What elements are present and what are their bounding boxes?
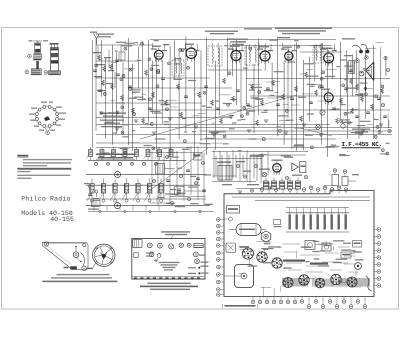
electrolytic band 3 <box>51 60 58 63</box>
speaker cone <box>366 62 374 81</box>
switch shaft hub 2 <box>115 203 121 209</box>
power drop wires <box>215 156 217 176</box>
power transformer box <box>218 166 232 181</box>
speaker caption line 3 <box>42 281 117 283</box>
balloon callout 19 <box>28 54 32 58</box>
IF transformer T3 <box>313 47 323 63</box>
tube label V5 <box>283 47 292 48</box>
dial mounting plate <box>42 242 88 270</box>
vibrator stem <box>36 61 39 69</box>
tube socket rear 5 <box>149 252 154 257</box>
PM speaker box <box>300 162 306 173</box>
rear caption below 2 <box>140 286 198 288</box>
ground arrow <box>365 77 367 89</box>
output transformer underside <box>226 243 236 253</box>
vibrator unit outline <box>35 43 41 52</box>
socket upper 3 <box>272 258 282 268</box>
speaker cone inner <box>368 66 372 77</box>
switch shaft line <box>86 173 206 175</box>
rear view caption <box>161 231 190 232</box>
balloon callout 20 <box>25 70 29 74</box>
svg-text:I.F.=455 KC.: I.F.=455 KC. <box>342 141 383 148</box>
rear caption below 3 <box>150 289 190 290</box>
dial lamp bracket <box>70 266 77 269</box>
resistor strip <box>283 260 305 262</box>
dial scale marks <box>146 253 153 254</box>
underside caption <box>225 305 256 307</box>
voice coil <box>359 71 364 76</box>
resistors <box>103 66 106 72</box>
cord anchor <box>80 261 82 263</box>
caption pointer <box>171 236 173 239</box>
top note E <box>244 28 272 29</box>
notes line 4 <box>17 168 71 170</box>
balloon callout 21 <box>44 71 48 75</box>
coil bank balloons <box>95 162 98 165</box>
left balloon column <box>217 218 221 222</box>
trimmer box 1 <box>156 164 165 175</box>
volume control pot <box>320 110 325 115</box>
compensator label <box>88 209 99 210</box>
dial pulley <box>73 252 79 258</box>
rear chassis box <box>132 239 205 280</box>
ground symbols <box>99 111 103 113</box>
coil bank top bus <box>88 159 186 161</box>
knob dot 2 <box>198 272 200 274</box>
vibrator lower contact <box>35 49 40 52</box>
osc section caps <box>166 179 170 181</box>
plate hole top-right <box>83 243 86 246</box>
top balloon row <box>260 188 264 192</box>
output network strip <box>346 50 348 93</box>
pilot lamp <box>262 172 267 177</box>
vibrator base bar <box>33 59 41 60</box>
notes line 1 <box>23 159 72 160</box>
filter can row <box>263 181 268 189</box>
tube V1 LA4 mixer <box>154 50 163 59</box>
wave trap star <box>154 258 159 262</box>
antenna lug <box>229 217 233 221</box>
ant terminal <box>187 243 191 247</box>
fuse holder <box>134 253 138 258</box>
comb top lines <box>286 207 349 209</box>
tube sockets underside <box>283 278 293 288</box>
power balloons <box>236 164 239 167</box>
schematic left rail <box>92 40 94 148</box>
tube label V1 <box>152 46 161 47</box>
tube label V2 <box>185 44 194 45</box>
dial cord spring arc <box>81 253 85 266</box>
svg-text:40-155: 40-155 <box>50 216 74 223</box>
underside center smudges <box>313 241 320 242</box>
vertical wires <box>95 39 97 131</box>
tube V5 1st audio <box>285 52 293 60</box>
IF can underside 1 <box>305 241 315 250</box>
IF transformer T2 <box>245 47 259 65</box>
tube surrounding detail <box>151 49 157 50</box>
label clear area <box>336 139 393 151</box>
socket right 1 <box>194 252 199 257</box>
vibrator socket base <box>31 69 41 75</box>
rectifier label <box>272 160 283 161</box>
tube V2 oscillator <box>186 48 196 58</box>
tube socket rear 1 <box>147 243 152 248</box>
rear bottom rail <box>132 276 205 278</box>
balloon callout 22 <box>46 131 50 135</box>
coil bank bottom rail <box>88 211 214 213</box>
line to electrolytic <box>224 275 241 277</box>
trimmer symbol <box>95 190 98 193</box>
top note C <box>228 39 248 40</box>
right margin balloons <box>384 56 387 59</box>
output plug dots <box>359 50 363 54</box>
socket right 2 <box>195 259 200 264</box>
rear label block <box>194 243 204 248</box>
coil bank bottom leads <box>93 206 95 211</box>
grommet hex <box>261 231 271 242</box>
switch contact slashes bottom <box>87 189 94 201</box>
dial lamp symbol <box>316 125 321 130</box>
RF choke <box>388 120 389 122</box>
osc smudges <box>190 203 198 204</box>
notes heading <box>17 155 28 157</box>
coil bank mid bus <box>86 184 200 186</box>
speaker caption line 2 <box>51 277 112 278</box>
speaker terminal lug <box>93 263 96 268</box>
antenna symbol <box>93 34 99 45</box>
padder condenser symbol <box>89 185 92 188</box>
power cord <box>366 276 372 291</box>
electrolytic top band <box>51 48 58 50</box>
antenna stage parts <box>93 52 101 53</box>
plate hole top-left <box>44 242 48 246</box>
wafer terminal labels <box>31 108 37 109</box>
trimmer box 3 <box>194 153 203 161</box>
diagonal 2 <box>300 128 332 136</box>
band switch rotor <box>44 117 50 121</box>
osc section verticals <box>151 152 153 195</box>
underside wires <box>315 277 317 288</box>
notes line 2 <box>23 162 71 163</box>
output transformer <box>349 61 355 74</box>
wave magnet note <box>352 129 370 130</box>
tube V4 det-avc <box>260 51 270 61</box>
wafer switch lead <box>45 128 48 131</box>
output triangle <box>292 163 298 171</box>
oscillator coil bank <box>90 184 94 194</box>
tube V3 IF amp <box>231 51 241 61</box>
band switch wafer ring <box>56 118 59 121</box>
underside striping <box>282 243 300 245</box>
bakelite block 1 <box>341 252 351 258</box>
power ground <box>266 182 270 184</box>
socket upper 1 <box>242 248 253 259</box>
diagonal dial cord <box>140 95 297 139</box>
bakelite block 2 <box>353 241 362 248</box>
left note <box>96 34 114 35</box>
knob dot 1 <box>198 267 200 269</box>
can row leads <box>265 178 267 182</box>
left outside labels <box>201 262 209 263</box>
tone condenser box <box>227 206 240 214</box>
dense component band <box>282 278 308 287</box>
power transformer block <box>133 240 142 248</box>
tube V7 2nd det <box>324 93 333 102</box>
notes line 5 <box>17 171 30 172</box>
vibrator top contact <box>35 44 40 46</box>
osc horiz wires <box>150 152 193 154</box>
tube socket rear 3 <box>169 244 174 249</box>
top note B <box>275 28 332 30</box>
electrolytic band 2 <box>51 53 58 57</box>
tone switch <box>341 124 345 128</box>
compensator box <box>92 201 101 207</box>
knob labels <box>188 267 196 268</box>
speaker balloons <box>356 59 359 62</box>
vibrator body hatched <box>34 54 41 59</box>
volume control shaft <box>355 263 362 270</box>
underside chassis outline <box>224 191 374 297</box>
notes line 3 <box>23 165 47 166</box>
bottom balloon rows <box>251 300 255 304</box>
top note D <box>278 37 290 38</box>
rear center text <box>159 262 180 263</box>
tube label V6 <box>322 48 332 49</box>
top note A <box>205 31 238 32</box>
electrolytic base <box>49 71 61 75</box>
short connecting wires <box>267 97 279 99</box>
IF transformer T1 <box>208 46 222 66</box>
switch shaft hub <box>115 172 121 178</box>
diagonal dial cord 2 <box>145 148 208 194</box>
tube socket rear 6 <box>157 254 161 258</box>
capacitors <box>98 89 102 91</box>
notes line 7 <box>17 178 31 179</box>
notes line 6 <box>17 175 70 176</box>
plate inner edge <box>45 245 71 265</box>
IF can underside 2 <box>322 243 331 251</box>
antenna coil bank <box>89 150 93 157</box>
tube label V4 <box>259 46 269 47</box>
top right can leads <box>324 185 332 187</box>
tube label V3 <box>230 46 240 47</box>
component value labels <box>352 109 358 110</box>
tube socket rear 4 <box>179 243 183 247</box>
filter choke lug <box>274 220 281 225</box>
lead wire <box>37 41 39 44</box>
electrolytic condenser body <box>51 48 59 71</box>
coil bank lower bus <box>86 198 206 200</box>
power section horizontals <box>212 158 262 160</box>
power section verticals <box>213 150 215 179</box>
top right cans <box>332 175 339 186</box>
tube top note <box>100 113 126 114</box>
plate hole bottom <box>82 266 86 270</box>
horizontal bus wires <box>150 39 336 41</box>
coil bank bottom bus <box>86 205 210 207</box>
oscillator coil capsule <box>236 224 261 236</box>
svg-text:Philco Radio: Philco Radio <box>21 196 70 203</box>
component callout balloons <box>227 103 230 106</box>
rotor position note <box>96 154 135 156</box>
socket upper 2 <box>257 252 267 262</box>
tube label V7 <box>321 89 330 90</box>
electrolytic rounded square <box>235 265 254 288</box>
rectifier tube V5 <box>273 164 281 172</box>
right balloon column <box>377 228 381 232</box>
switch contact slashes top <box>86 151 92 159</box>
filament smudges <box>250 156 264 157</box>
coil comb assembly <box>286 212 349 214</box>
tube socket rear 2 <box>158 243 163 248</box>
rear caption below 1 <box>148 283 191 285</box>
tube V6 output <box>324 53 334 63</box>
osc coil box <box>172 60 184 76</box>
trimmer box 2 <box>175 187 185 196</box>
electrolytic condenser top leads <box>51 43 53 47</box>
pulley arm <box>75 247 77 252</box>
speaker rear view <box>93 244 115 266</box>
osc balloons <box>153 180 156 183</box>
speaker caption line 1 <box>57 274 110 275</box>
rear bottom ticks <box>134 277 137 278</box>
